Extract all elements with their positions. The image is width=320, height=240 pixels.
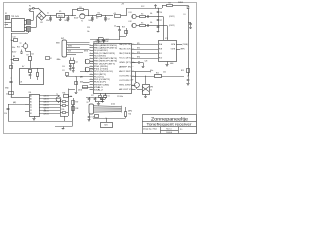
svg-text:PB0 (AIN0/PCINT0): PB0 (AIN0/PCINT0) [94, 44, 118, 47]
svg-text:BC547: BC547 [74, 18, 78, 20]
speaker LS1 [132, 14, 136, 18]
IC3 bottom crystal circuit [100, 93, 102, 95]
IC4 right pin 3 [39, 101, 60, 103]
SV1 pin 5 wire [67, 52, 84, 54]
transformer TR1 windings [27, 20, 31, 25]
resistor R4 [136, 16, 139, 18]
IC4 right pin 2 [39, 98, 60, 100]
bottom rail [8, 121, 72, 123]
second bottom rail + gnd [55, 126, 72, 128]
ISP connector SV1 [62, 40, 67, 57]
svg-text:21-06-04: 21-06-04 [166, 132, 172, 134]
IC4 gnd [34, 116, 36, 118]
svg-text:X1: X1 [5, 13, 7, 15]
capacitor C5 [119, 26, 121, 30]
svg-text:C2: C2 [30, 110, 32, 112]
transistor T1 series [80, 14, 85, 19]
IC4 right pin 4 [39, 104, 60, 106]
electrolytic caps C12 C13 [85, 59, 90, 64]
IC2 pin row 2 [136, 49, 159, 51]
svg-text:R5: R5 [141, 23, 143, 25]
svg-text:10n: 10n [87, 31, 90, 33]
X2 fan wire 4 [94, 111, 122, 114]
long right vertical wire [188, 9, 190, 76]
X2 fan wire 1 [94, 105, 122, 108]
svg-text:T4: T4 [131, 79, 133, 81]
IC3 left pin 18 XTAL2 [90, 89, 94, 91]
svg-text:SCK: SCK [68, 50, 71, 52]
svg-text:4k7: 4k7 [22, 66, 24, 68]
svg-text:10k: 10k [32, 53, 35, 55]
transistor T4 [134, 83, 139, 88]
svg-text:T2: T2 [20, 43, 22, 45]
cap C16 [7, 108, 10, 110]
svg-text:PB1 (AIN1/PCINT1): PB1 (AIN1/PCINT1) [94, 47, 118, 50]
resistor ladder verticals [60, 99, 62, 116]
transistor T3 [56, 97, 61, 102]
wire fuse to bridge [34, 8, 38, 10]
svg-text:Q1: Q1 [76, 61, 78, 63]
wire winding bottom to bridge [31, 27, 37, 29]
svg-text:(P4): (P4) [137, 57, 140, 59]
wires to IC2 top [157, 15, 160, 18]
svg-text:C20: C20 [163, 71, 166, 73]
wire ladder to bottom rail [64, 116, 66, 121]
voltage regulator IC1 [57, 14, 65, 18]
resistor R12 [155, 75, 162, 78]
resistor R6 [11, 59, 14, 61]
svg-text:AVCC SUP: AVCC SUP [119, 70, 131, 73]
IC3 left pin 16 /RESET (dW) [90, 84, 94, 86]
comps inside amp box [29, 70, 32, 73]
K1 bottom stub gnd [145, 94, 147, 96]
vertical from IC3 pin to output row [135, 72, 137, 83]
IC2 out wire row2 [176, 49, 180, 51]
svg-text:GND (XT): GND (XT) [119, 62, 131, 64]
svg-text:PB2 (OC0A/PCINT2): PB2 (OC0A/PCINT2) [94, 49, 108, 52]
svg-text:OUTB: OUTB [171, 49, 175, 51]
output row wire [136, 76, 185, 78]
svg-text:AREF IN: AREF IN [119, 66, 132, 69]
wire R2 out [102, 15, 114, 17]
svg-text:REL DRV: REL DRV [119, 85, 132, 87]
second vertical comp near C5 [126, 28, 128, 36]
cap C14 cluster [11, 40, 14, 42]
IC4 left pin y111 [25, 111, 29, 113]
IC3 left pin 1 PB0 (AIN0/PCINT0) [90, 45, 94, 47]
svg-text:Zonnepaneeltje: Zonnepaneeltje [151, 117, 189, 122]
svg-text:(RST): (RST) [84, 50, 88, 52]
diode D1 [187, 7, 190, 9]
svg-text:IN B: IN B [159, 49, 162, 51]
svg-text:D1: D1 [30, 113, 32, 115]
small comp on left rail [10, 66, 13, 69]
resistor R1 upper bypass [71, 14, 74, 17]
svg-text:C23: C23 [145, 60, 148, 62]
IC3 left pin 11 PD2 (INT0/XCK) [90, 71, 94, 73]
vertical resistor pair R17 R18 [73, 98, 75, 114]
resistor R3 [162, 5, 164, 8]
ladder comps [63, 101, 66, 103]
buzzer BZ1 box [101, 123, 113, 128]
svg-text:4066: 4066 [170, 63, 174, 65]
diode D2 [21, 50, 23, 52]
svg-text:R3: R3 [168, 2, 170, 4]
svg-text:(REF): (REF) [181, 49, 185, 51]
svg-text:TR1 2x9V: TR1 2x9V [11, 16, 20, 18]
cap C22 [89, 97, 91, 99]
svg-text:10k: 10k [70, 96, 73, 98]
IC2 out wire [176, 44, 182, 46]
svg-text:(RX): (RX) [80, 81, 84, 83]
IC3 left pin 15 PD6 (ICP) [90, 81, 94, 83]
svg-text:BC557: BC557 [12, 52, 16, 54]
IC3 left pin 4 PB3 (OC1A/PCINT3) [90, 53, 94, 55]
svg-text:(P3): (P3) [137, 52, 140, 54]
IC2 pin row 4 [136, 58, 159, 60]
svg-text:R19: R19 [122, 27, 125, 29]
svg-text:100n: 100n [150, 70, 153, 72]
IC4 left pin y104 [25, 104, 29, 106]
svg-text:PB3 (OC1A/PCINT3): PB3 (OC1A/PCINT3) [94, 52, 115, 55]
caps C17 C18 [86, 97, 107, 99]
svg-text:(Q7) 1k: (Q7) 1k [44, 114, 49, 116]
svg-text:R16: R16 [63, 92, 66, 94]
inductor L1 on rail [115, 15, 121, 18]
capacitor C2 [67, 14, 70, 17]
svg-text:LS2: LS2 [129, 21, 132, 23]
series cap row1 [147, 15, 149, 18]
wire winding top to fuse [31, 20, 34, 22]
IC4 right pin 1 [39, 95, 60, 97]
svg-text:R4: R4 [141, 14, 143, 16]
capacitor chain C6 C7 C8 [157, 7, 160, 10]
IC3 left lower wires [80, 71, 90, 73]
svg-text:(Q3) 1k: (Q3) 1k [44, 102, 49, 104]
svg-text:MOSI: MOSI [68, 46, 72, 48]
svg-text:C14: C14 [13, 36, 16, 38]
AF net wire [90, 39, 120, 41]
IC4 left wires [11, 97, 25, 99]
transistor T2 [23, 44, 28, 49]
svg-text:(OSC2): (OSC2) [169, 25, 175, 27]
wire R3 to D1 [173, 5, 189, 7]
comp above ladder [64, 95, 69, 98]
X2 fan wire 2 [94, 107, 122, 109]
IC4 right pin 5 [39, 107, 60, 109]
svg-text:X1: X1 [108, 96, 110, 98]
svg-text:T3: T3 [56, 94, 58, 96]
svg-text:VCC (XT): VCC (XT) [119, 58, 131, 60]
svg-text:4MHz: 4MHz [57, 59, 61, 61]
svg-text:SPK: SPK [150, 86, 153, 88]
crystal Q1 [70, 61, 75, 64]
svg-text:F1: F1 [29, 6, 31, 8]
svg-text:(OSC1): (OSC1) [169, 16, 175, 18]
svg-text:R2: R2 [98, 13, 100, 15]
capacitor C1 [50, 16, 52, 18]
IC4 left pin y97 [25, 97, 29, 99]
svg-text:R17: R17 [76, 102, 79, 104]
svg-text:IC2: IC2 [165, 38, 168, 40]
svg-text:C17: C17 [91, 95, 94, 97]
IC3 box [94, 44, 132, 94]
left lower vertical [8, 104, 10, 121]
svg-text:B2: B2 [30, 104, 32, 106]
SV1 pin 1 wire [67, 42, 90, 44]
svg-text:C5: C5 [114, 26, 116, 28]
vertical link above ladder [68, 89, 70, 97]
cap C19 [89, 114, 91, 117]
IC2 gnd [167, 62, 169, 65]
svg-text:C1: C1 [30, 107, 32, 109]
svg-text:OUT DRV 1: OUT DRV 1 [119, 76, 130, 78]
svg-text:SV1: SV1 [61, 38, 64, 40]
svg-text:P 0: P 0 [180, 129, 182, 131]
svg-text:100n: 100n [12, 47, 15, 49]
small box near C19 [95, 115, 99, 118]
svg-text:R14: R14 [17, 46, 20, 48]
svg-text:(Q5) 1k: (Q5) 1k [44, 108, 49, 110]
svg-text:(OUT): (OUT) [78, 89, 83, 91]
svg-text:100n: 100n [65, 20, 68, 22]
svg-text:C21 100n: C21 100n [117, 96, 123, 98]
IC2 box [159, 41, 177, 62]
connector X1 pins [5, 22, 12, 24]
IC3 left pin 12 PD3 (INT1) [90, 74, 94, 76]
IC3 left pin 13 PD4 (T0) [90, 76, 94, 78]
svg-text:C12: C12 [91, 61, 94, 63]
IC3 left pin 7 PB6 (MISO/PCINT6) [90, 61, 94, 63]
SV1 pin 2 wire [67, 44, 90, 46]
IC3 left pin 14 PD5 (OC0B/T1) [90, 79, 94, 81]
svg-text:XTAL2: XTAL2 [94, 88, 103, 91]
svg-text:C24: C24 [87, 27, 90, 29]
resistor R5 [136, 25, 139, 27]
svg-text:C6: C6 [160, 12, 162, 14]
svg-text:R13: R13 [181, 70, 184, 72]
IC3 left pin 10 PD1 (TXD) [90, 68, 94, 70]
IC4 right pin 7 [39, 113, 60, 115]
svg-text:(Q2) 1k: (Q2) 1k [44, 99, 49, 101]
IC3 left pin 2 PB1 (AIN1/PCINT1) [90, 47, 94, 49]
IC3 left pin 6 PB5 (MOSI/PCINT5) [90, 58, 94, 60]
sheet border frame [4, 3, 197, 134]
svg-text:X2: X2 [87, 102, 89, 104]
svg-text:78L05: 78L05 [58, 15, 63, 17]
svg-text:LS1: LS1 [129, 12, 132, 14]
svg-text:S1: S1 [50, 58, 52, 60]
svg-text:10k: 10k [150, 22, 153, 24]
resistor R11 [125, 112, 127, 117]
svg-text:(P1): (P1) [137, 43, 140, 45]
series cap + gnd on pin row 62.5 [132, 62, 139, 64]
svg-text:C7: C7 [160, 20, 162, 22]
svg-text:PA1 (OSC OUT): PA1 (OSC OUT) [119, 48, 131, 51]
svg-text:(Q4) 1k: (Q4) 1k [44, 105, 49, 107]
box feeding XTAL row [82, 87, 90, 89]
svg-text:(SPK): (SPK) [128, 110, 133, 112]
svg-text:(TONE): (TONE) [183, 44, 189, 46]
transformer TR1 body box [12, 19, 25, 32]
svg-text:R11: R11 [129, 113, 132, 115]
amplifier sub box [20, 69, 44, 85]
crystal caps C10 C11 [70, 63, 72, 65]
svg-text:C4: C4 [108, 19, 110, 21]
svg-text:C11: C11 [62, 70, 65, 72]
pin row 71.5 wire [136, 71, 151, 73]
svg-text:PA2 (TONE IN): PA2 (TONE IN) [119, 52, 131, 55]
IC2 pin row 1 [136, 44, 159, 46]
series cap row2 [147, 24, 149, 27]
cap C15 on left rail [10, 77, 13, 80]
svg-text:BZ1: BZ1 [104, 125, 107, 127]
IC4 box [30, 95, 40, 117]
secondary winding to left vertical rail [28, 31, 30, 33]
svg-text:(LCD): (LCD) [111, 104, 116, 106]
SV1 pin 4 wire [67, 49, 90, 51]
svg-text:B1: B1 [30, 101, 32, 103]
svg-text:T1: T1 [81, 21, 83, 23]
capacitor C4 [104, 14, 107, 17]
svg-text:1N4148: 1N4148 [178, 2, 183, 4]
regulator gnd pin [60, 17, 62, 19]
svg-text:IC1: IC1 [59, 11, 62, 13]
svg-text:R12: R12 [156, 73, 159, 75]
svg-text:C1: C1 [47, 13, 49, 15]
VCC arrow [155, 5, 157, 8]
small box left [66, 73, 69, 76]
svg-text:Design by J. Ham: Design by J. Ham [143, 129, 158, 131]
SV1 pin 6 wire [67, 54, 77, 56]
wire bridge to regulator [46, 15, 56, 17]
IC3 left pin 8 PB7 (SCK/PCINT7) [90, 63, 94, 65]
fuse F1 [29, 9, 31, 11]
connector X2 [89, 104, 94, 114]
svg-text:R18: R18 [76, 108, 79, 110]
X2 fan wire 3 [94, 109, 122, 111]
svg-text:(P2): (P2) [137, 48, 140, 50]
IC3 VCC decoupling caps [98, 40, 100, 43]
svg-text:R15: R15 [62, 109, 65, 111]
bridge rectifier B1 [37, 11, 46, 20]
svg-text:4k7: 4k7 [96, 18, 98, 20]
svg-text:(Q1) 1k: (Q1) 1k [44, 96, 49, 98]
title block box [143, 115, 197, 134]
vertical branch w/ resistor to gnd [76, 77, 78, 92]
IC3 left pin 5 PB4 (OC1B/PCINT4) [90, 55, 94, 57]
svg-text:D1: D1 [184, 14, 186, 16]
svg-text:PA0 (OSC IN): PA0 (OSC IN) [119, 43, 131, 46]
svg-text:R1: R1 [79, 7, 81, 9]
IC3 left pin 3 PB2 (OC0A/PCINT2) [90, 50, 94, 52]
svg-text:Rev 1.0: Rev 1.0 [166, 129, 171, 131]
svg-text:IC4: IC4 [29, 92, 32, 94]
SV1 pin 3 wire [67, 47, 81, 49]
long left vertical wire [11, 33, 13, 97]
wire regulator out [65, 15, 77, 17]
speaker LS2 [132, 23, 136, 27]
svg-text:C16: C16 [4, 113, 7, 115]
node after T1 [89, 15, 97, 17]
svg-text:XTAL1: XTAL1 [94, 86, 103, 89]
IC4 right pin 6 [39, 110, 60, 112]
svg-text:R6: R6 [13, 56, 15, 58]
IC2 pin row 3 [136, 53, 159, 55]
capacitor C3 [91, 14, 94, 17]
svg-text:C18: C18 [104, 95, 107, 97]
wire to R11 [93, 118, 126, 120]
gnd stub near AF net [104, 40, 106, 41]
svg-text:C13: C13 [91, 69, 94, 71]
resistor R2 [97, 15, 102, 17]
cap to gnd on right vertical [188, 22, 191, 24]
svg-text:470u: 470u [46, 20, 49, 22]
svg-text:OUT DRV 2: OUT DRV 2 [119, 80, 130, 82]
svg-text:B1: B1 [40, 22, 42, 24]
svg-text:100n: 100n [89, 20, 92, 22]
svg-text:AF OUT X: AF OUT X [119, 88, 131, 91]
5V rail up and right [121, 15, 127, 17]
svg-text:Tonefrequent receiver: Tonefrequent receiver [147, 122, 193, 126]
svg-text:C10: C10 [62, 66, 65, 68]
small box on left rail end [9, 92, 14, 95]
svg-text:10k: 10k [150, 13, 153, 15]
right end R13 + cap + gnd [187, 75, 190, 78]
relay K1 box [143, 85, 150, 95]
label cluster left of crystal [46, 57, 50, 60]
IC3 left pin 9 PD0 (RXD) [90, 66, 94, 68]
IC3 left pin 17 XTAL1 [90, 87, 94, 89]
